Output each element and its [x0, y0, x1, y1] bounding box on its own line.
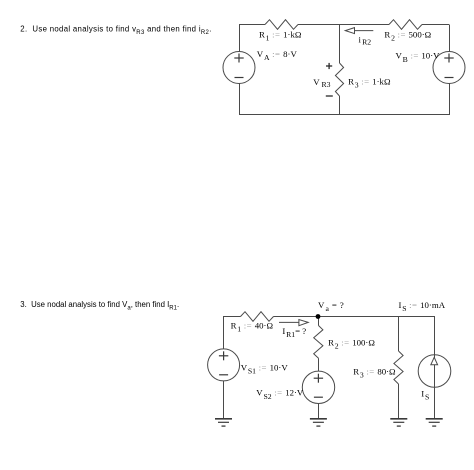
voltage source VS1 polarity marks	[219, 351, 228, 375]
svg-text:Va = ?: Va = ?	[318, 300, 344, 313]
wire: right branch lower	[449, 84, 451, 115]
svg-text:R1 := 40·Ω: R1 := 40·Ω	[231, 320, 274, 333]
svg-text:VS1 := 10·V: VS1 := 10·V	[241, 362, 289, 375]
resistor R1 (1 kOhm, top circuit)	[265, 20, 298, 30]
wire: left branch upper (VS1)	[223, 317, 225, 349]
voltage source VB circle	[433, 52, 465, 84]
wire: top-left segment of problem-3 circuit	[223, 316, 241, 318]
svg-text:IS := 10·mA: IS := 10·mA	[399, 300, 446, 313]
wire: top-left segment of problem-2 loop	[239, 24, 265, 26]
resistor R2 (100 Ohm, vertical, bottom circuit)	[314, 326, 323, 359]
voltage source VA circle	[223, 52, 255, 84]
resistor R3 polarity plus	[326, 63, 332, 69]
wire: IS branch (full, passes through source circle)	[434, 317, 436, 419]
wire: left branch upper	[239, 25, 241, 52]
wire: right branch upper	[449, 25, 451, 52]
voltage source VS1 circle	[208, 349, 240, 381]
resistor R3 polarity minus	[326, 95, 333, 97]
ground symbol (R3 branch)	[390, 419, 407, 426]
wire: VS2 to ground	[318, 404, 320, 419]
ground symbol (VS1 branch)	[215, 419, 232, 426]
wire: top-right segment	[422, 24, 449, 26]
svg-text:R3 := 1·kΩ: R3 := 1·kΩ	[348, 76, 391, 89]
wire: R2 branch to VS2	[318, 358, 320, 371]
svg-text:VR3: VR3	[313, 77, 330, 89]
wire: top-middle segment	[298, 24, 389, 26]
current arrow iR2 (points left)	[345, 28, 373, 34]
wire: middle branch lower	[339, 96, 341, 115]
voltage source VS2 polarity marks	[314, 374, 323, 398]
wire: middle branch upper	[339, 25, 341, 64]
svg-text:VB := 10·V: VB := 10·V	[396, 51, 441, 64]
current source IS circle	[418, 355, 451, 388]
svg-text:IS: IS	[421, 389, 429, 402]
ground symbol (VS2 branch)	[310, 419, 327, 426]
wire: R3 branch upper	[398, 317, 400, 352]
voltage source VA polarity marks	[234, 54, 243, 78]
resistor R3 (1 kOhm, vertical, top circuit)	[335, 63, 343, 96]
svg-text:3. Use nodal analysis to find: 3. Use nodal analysis to find Va, then f…	[20, 300, 179, 311]
svg-text:IR1= ?: IR1= ?	[282, 326, 306, 339]
svg-text:VS2 := 12·V: VS2 := 12·V	[256, 388, 304, 401]
svg-text:R2 := 500·Ω: R2 := 500·Ω	[384, 30, 431, 43]
svg-text:R2 := 100·Ω: R2 := 100·Ω	[328, 338, 375, 351]
svg-text:2. Use nodal analysis to find: 2. Use nodal analysis to find vR3 and th…	[20, 25, 211, 36]
voltage source VB polarity marks	[444, 54, 453, 78]
svg-text:iR2: iR2	[359, 34, 372, 46]
current source IS arrowhead (points up)	[431, 357, 438, 365]
ground symbol (IS branch)	[426, 419, 443, 426]
svg-text:R3 := 80·Ω: R3 := 80·Ω	[353, 367, 396, 380]
wire: R2 branch upper stub	[318, 317, 320, 326]
wire: bottom of problem-2 loop	[239, 114, 450, 116]
voltage source VS2 circle	[302, 371, 334, 403]
svg-text:VA := 8·V: VA := 8·V	[257, 49, 298, 62]
resistor R1 (40 Ohm, bottom circuit)	[241, 312, 274, 322]
resistor R2 (500 Ohm, top circuit)	[389, 20, 422, 30]
wire: left branch lower to ground	[223, 381, 225, 418]
wire: top segment from R1 to right end	[274, 316, 436, 318]
node a junction dot	[316, 314, 321, 319]
resistor R3 (80 Ohm, vertical, bottom circuit)	[394, 351, 403, 384]
wire: left branch lower	[239, 84, 241, 115]
wire: R3 branch to ground	[398, 384, 400, 418]
current arrow IR1 (points right)	[279, 320, 308, 326]
svg-text:R1 := 1·kΩ: R1 := 1·kΩ	[259, 30, 302, 43]
